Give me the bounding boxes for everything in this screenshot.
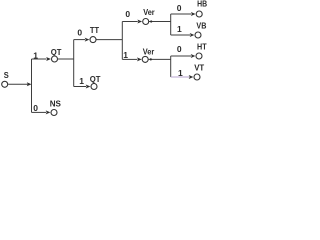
svg-text:HB: HB xyxy=(197,0,207,9)
svg-text:VT: VT xyxy=(194,63,205,73)
svg-text:Ver: Ver xyxy=(143,46,155,56)
svg-text:0: 0 xyxy=(177,44,182,54)
svg-text:QT: QT xyxy=(90,74,101,84)
svg-text:0: 0 xyxy=(77,28,82,38)
svg-text:HT: HT xyxy=(197,41,207,51)
svg-text:1: 1 xyxy=(177,24,182,34)
svg-text:1: 1 xyxy=(178,68,183,78)
svg-text:VB: VB xyxy=(196,21,206,31)
svg-text:1: 1 xyxy=(33,50,38,60)
svg-text:0: 0 xyxy=(177,3,182,13)
svg-text:1: 1 xyxy=(79,76,84,86)
svg-text:NS: NS xyxy=(50,98,62,108)
svg-text:Ver: Ver xyxy=(143,7,155,17)
svg-text:0: 0 xyxy=(33,103,38,113)
svg-text:S: S xyxy=(4,70,9,80)
svg-text:TT: TT xyxy=(90,25,100,35)
svg-text:QT: QT xyxy=(51,47,62,57)
svg-text:0: 0 xyxy=(125,9,130,19)
svg-text:1: 1 xyxy=(123,50,128,60)
